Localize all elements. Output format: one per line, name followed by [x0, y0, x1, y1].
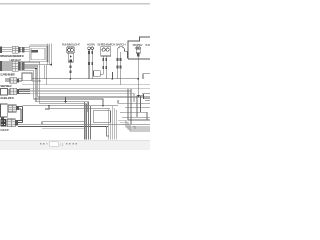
bus y88.5 — [19, 88, 150, 90]
inline connectors — [102, 58, 104, 61]
CDI box tab — [1, 117, 4, 119]
relay box — [0, 89, 7, 96]
wire y126 — [60, 125, 108, 127]
switch S1 — [100, 47, 110, 79]
junction dot x39 — [39, 80, 41, 82]
wire lb1 — [83, 102, 85, 140]
wire — [100, 56, 106, 79]
wire rb5 — [116, 110, 118, 140]
svg-text:SAFETY RELAY: SAFETY RELAY — [0, 84, 12, 88]
connector J3 block — [0, 61, 2, 71]
wire — [5, 79, 10, 81]
top right box corner — [143, 74, 150, 79]
inline connector — [70, 65, 72, 68]
nav glyph zoom-in — [76, 143, 78, 145]
wire brc1 — [118, 120, 150, 127]
wire corner y66 — [25, 66, 151, 97]
toolbar background — [0, 141, 150, 150]
wire — [89, 50, 92, 79]
wire x106 drop — [107, 126, 109, 136]
nav glyph zoom-out — [72, 143, 74, 145]
connector J9 hatched — [7, 119, 18, 127]
wire — [21, 62, 25, 70]
wire x112 — [112, 72, 114, 79]
svg-text:CDI UNIT: CDI UNIT — [0, 128, 9, 132]
wire rb2 — [110, 111, 112, 140]
wire y105.5 — [23, 105, 119, 107]
regulator box — [93, 111, 110, 123]
inline connectors — [117, 58, 119, 61]
bottom-right nested corners — [118, 120, 150, 131]
junction dots on buses — [70, 78, 72, 80]
wire y110 — [93, 110, 110, 112]
connector J5 hatched — [10, 78, 13, 83]
wire corner y68 — [25, 68, 89, 112]
svg-text:HORN: HORN — [87, 43, 95, 47]
wire grid v1 — [128, 89, 150, 120]
wire step — [45, 106, 49, 109]
wire y128 — [42, 127, 84, 129]
wire grid v3 — [136, 96, 138, 117]
page background — [0, 0, 150, 150]
stop switch box — [128, 37, 150, 59]
current limiter assembly — [5, 78, 19, 83]
wire rb4 — [114, 108, 116, 140]
wire dc2 — [142, 93, 150, 95]
wire vertical pair — [21, 107, 23, 123]
wire — [7, 90, 10, 94]
junction dot — [50, 64, 52, 66]
wire brc2 — [120, 122, 150, 129]
loop box — [22, 73, 32, 81]
wire lb2 — [85, 104, 87, 140]
wire grid h4 — [122, 116, 150, 118]
wire — [19, 90, 30, 94]
wire grid v2 — [130, 89, 132, 125]
wire lb3 — [87, 102, 89, 140]
inline connectors — [88, 51, 90, 54]
nav glyph prev2 — [40, 143, 42, 145]
horn H1 — [88, 47, 94, 79]
connector J1 block — [0, 47, 2, 53]
wire y64 — [25, 64, 52, 66]
wire rb1 — [108, 109, 110, 140]
wire bundle lower — [45, 65, 47, 85]
svg-text:SWITCH: SWITCH — [116, 43, 126, 47]
wire — [2, 62, 12, 70]
junction dot — [138, 95, 140, 97]
wire — [2, 48, 12, 52]
wire y121.5 — [42, 122, 84, 125]
svg-text:AC REGULATOR: AC REGULATOR — [0, 96, 15, 100]
wire — [19, 107, 23, 110]
small box node — [94, 71, 101, 77]
junction dot corner — [35, 68, 37, 70]
fuse box outer — [29, 46, 47, 62]
right wire bundle vertical — [109, 106, 117, 140]
bus y78.5 — [32, 78, 139, 80]
wire grid v4 — [140, 96, 142, 112]
connector J2 hatched pair — [12, 46, 21, 53]
wire bundle verticals — [48, 44, 52, 65]
wire lb4 — [89, 106, 91, 140]
bus y91 — [19, 91, 131, 100]
wire dc4 — [145, 100, 150, 102]
wire — [21, 48, 30, 52]
svg-text:RUNNING LIGHT: RUNNING LIGHT — [62, 43, 80, 47]
nav glyph prev — [43, 143, 45, 145]
fuse label plate — [32, 50, 38, 52]
toolbar top edge — [0, 139, 150, 142]
wire — [138, 57, 143, 96]
node block row1 right — [22, 47, 24, 52]
switch S3 — [136, 47, 143, 96]
connector J4 hatched pair — [12, 61, 21, 71]
connector J8 pin block — [0, 119, 6, 127]
key switch S2 arch — [117, 47, 128, 85]
svg-text:CURRENT LIMITER: CURRENT LIMITER — [0, 73, 16, 77]
wire grid h2 — [125, 106, 150, 108]
top page edge line — [0, 3, 150, 4]
fuse box inner — [31, 48, 45, 59]
wire grid h1 — [118, 102, 150, 104]
wire y108.5 — [49, 108, 110, 110]
wire brc4 — [133, 126, 135, 129]
wire grid h3 — [120, 112, 147, 120]
safety relay assembly — [0, 88, 30, 95]
wire rb3 — [112, 106, 114, 140]
left wire bundle vertical — [84, 102, 90, 140]
dark cluster right — [138, 94, 150, 101]
wire stub into loop box — [19, 79, 22, 81]
CDI box — [0, 104, 7, 117]
wire grid v from bus — [102, 100, 104, 106]
wire dc1 step — [139, 96, 151, 99]
svg-text:STOP SW: STOP SW — [133, 43, 143, 47]
node block row2 right — [22, 62, 24, 70]
wire corner y70 — [25, 71, 104, 106]
wire — [18, 121, 150, 127]
wire brc3 — [122, 124, 150, 131]
svg-text:/ 2: / 2 — [60, 143, 64, 147]
svg-text:IGNITION SWITCH: IGNITION SWITCH — [98, 43, 116, 47]
page input box — [50, 142, 58, 146]
wire dc3 — [143, 94, 145, 96]
wire — [118, 52, 121, 85]
nav glyph next2 — [69, 143, 71, 145]
connector J6 hatched — [10, 88, 13, 94]
svg-text:BR: BR — [146, 43, 151, 47]
junction dots — [65, 97, 67, 102]
bus y93 — [19, 93, 134, 102]
bus y84.5 — [22, 84, 150, 86]
nav glyph sep — [46, 143, 47, 145]
connector J7 hatched — [8, 105, 19, 112]
wire — [70, 62, 72, 79]
nav glyph next — [66, 143, 68, 145]
wire grid corner — [117, 100, 119, 103]
wire corner y62 — [25, 62, 87, 140]
bus y81 — [32, 80, 40, 82]
fuse box shadow edge — [29, 45, 48, 63]
lamp L1 — [67, 47, 75, 79]
